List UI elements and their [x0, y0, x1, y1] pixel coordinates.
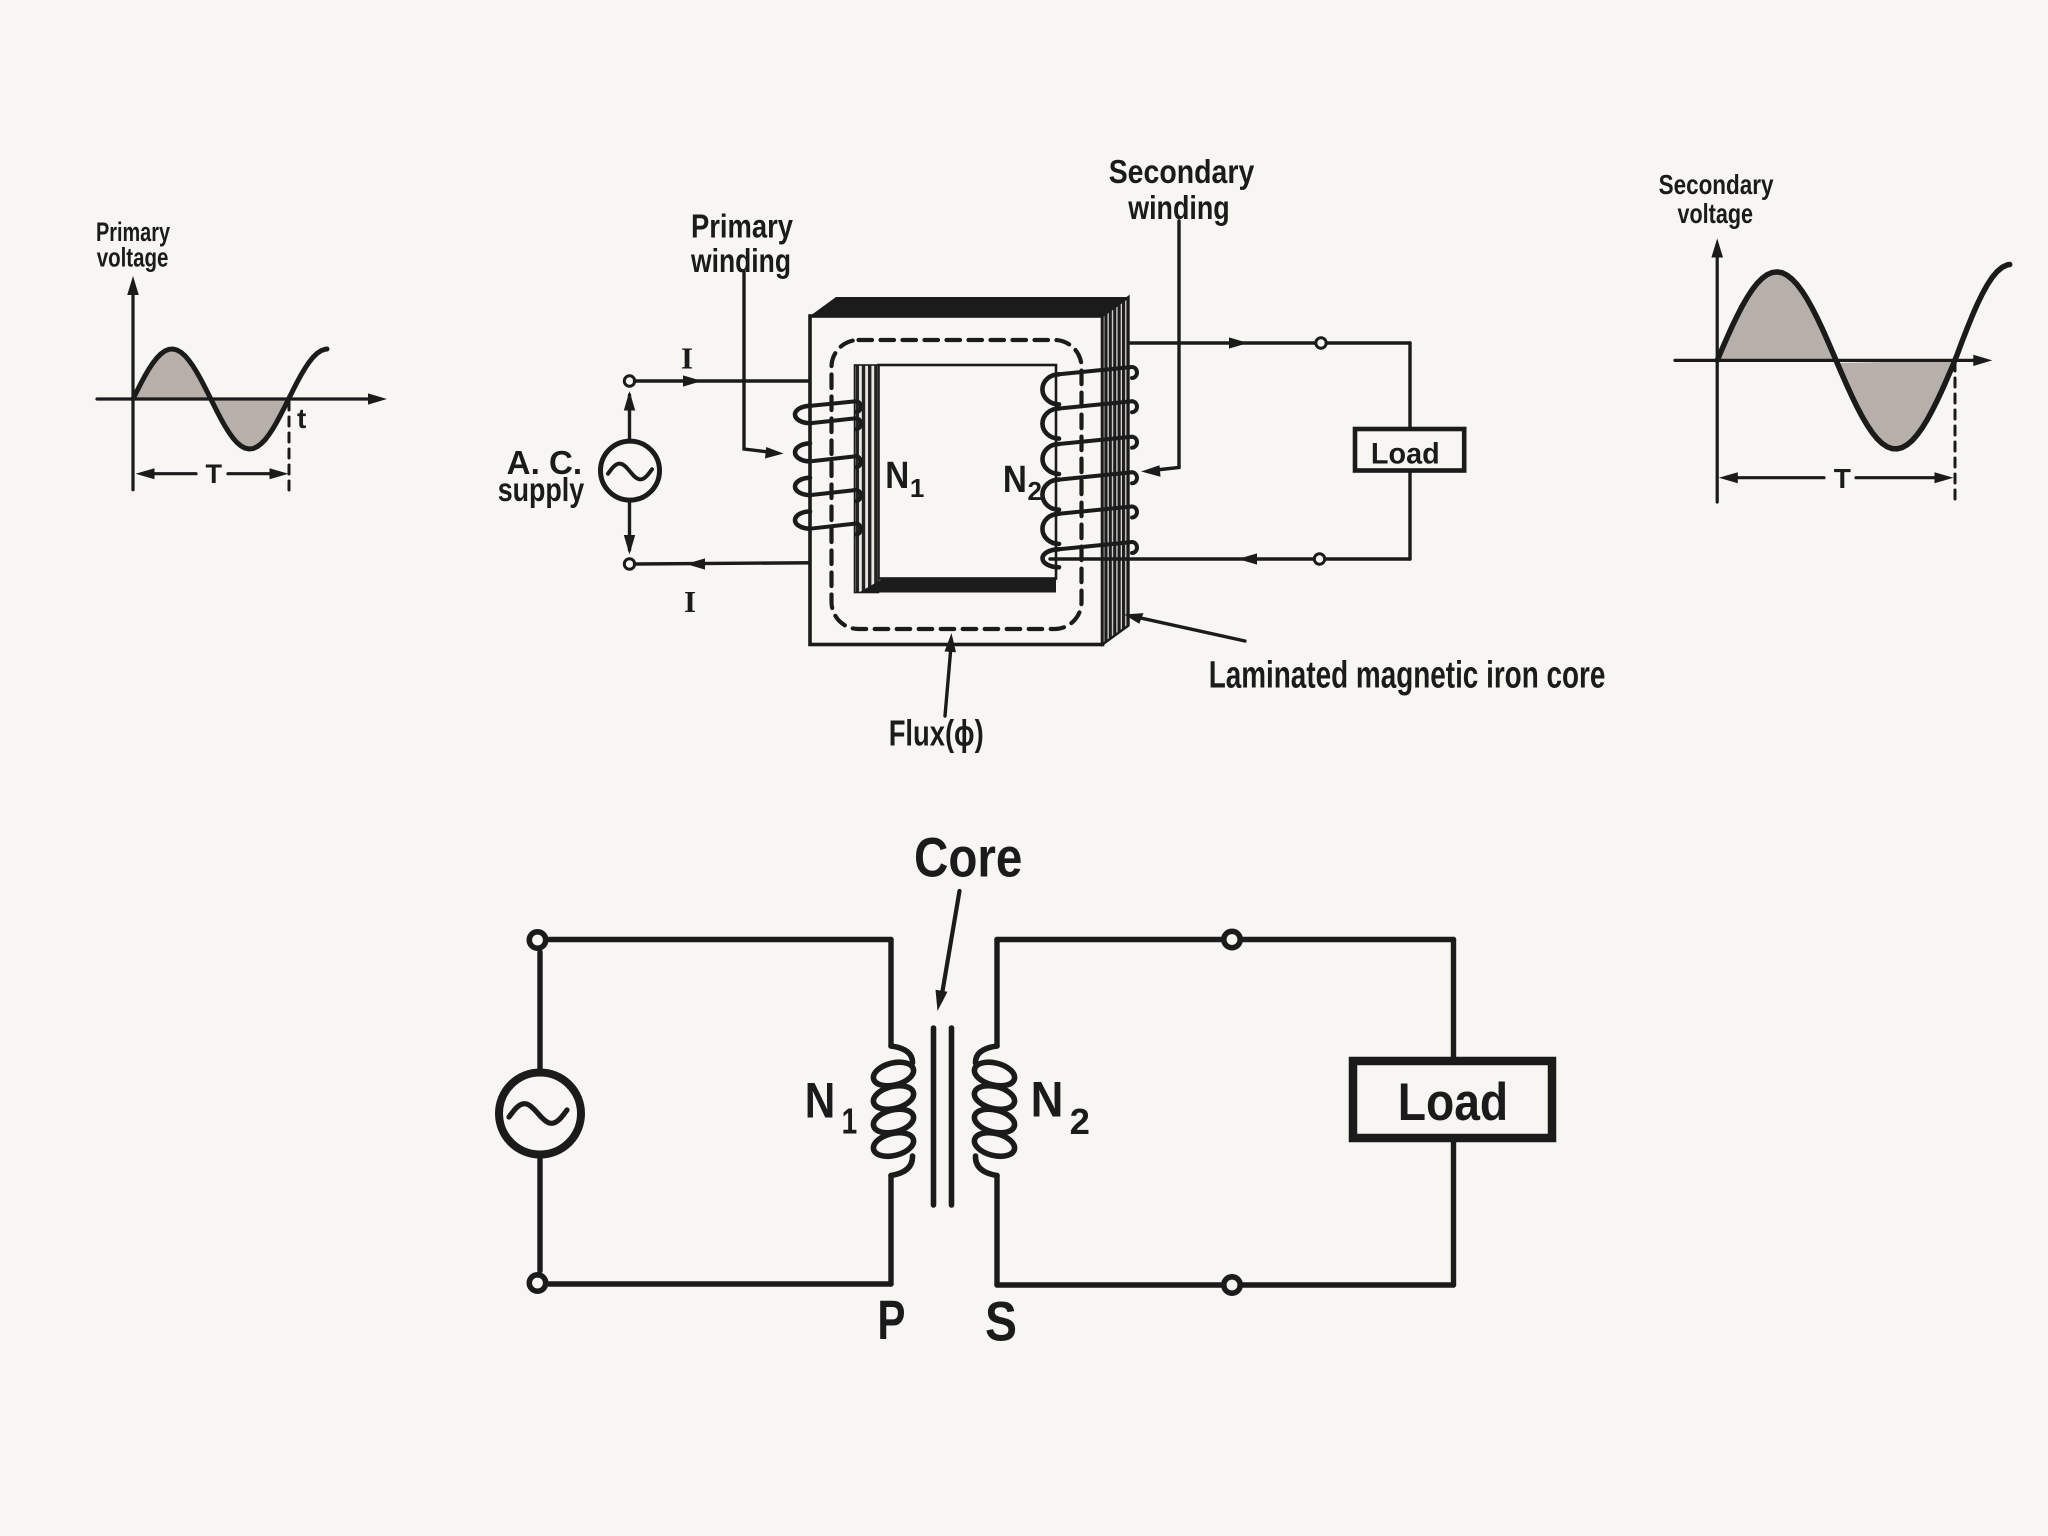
transformer core: top face (3D)	[810, 297, 1129, 316]
svg-text:T: T	[206, 459, 223, 489]
arrow from source down to bottom terminal	[624, 501, 635, 555]
leader arrow: primary winding label to coil	[744, 271, 784, 459]
AC supply source symbol	[601, 441, 660, 500]
secondary winding coil: turn arcs	[1042, 374, 1059, 567]
sine curve (primary voltage)	[133, 349, 327, 449]
leader arrow: secondary winding label to coil	[1141, 221, 1179, 477]
svg-text:t: t	[297, 403, 306, 434]
secondary winding coil: wires crossing laminated limb	[1059, 367, 1132, 549]
label: Secondary voltage	[1659, 169, 1774, 229]
svg-text:Load: Load	[1371, 437, 1440, 470]
shaded negative half-cycle (secondary)	[1837, 360, 1955, 448]
shaded positive half-cycle (primary)	[133, 349, 211, 399]
svg-text:Secondary: Secondary	[1659, 169, 1774, 200]
primary winding coil: turn arcs	[795, 406, 810, 529]
label: Flux(phi) with leader arrow	[889, 633, 984, 754]
secondary terminal on top rail	[1224, 931, 1240, 947]
svg-text:1: 1	[842, 1100, 858, 1141]
label: N1 (primary turns)	[885, 455, 924, 503]
svg-text:I: I	[681, 341, 693, 376]
svg-text:N: N	[885, 455, 909, 497]
secondary terminal (bottom)	[1314, 554, 1324, 564]
shaded negative half-cycle (primary)	[211, 398, 289, 449]
wire: primary coil down to bottom rail	[888, 1176, 893, 1285]
arrow from source up to top terminal	[624, 391, 635, 440]
svg-text:supply: supply	[498, 471, 585, 508]
svg-text:winding: winding	[690, 242, 791, 279]
dashed ordinate at time t (primary)	[288, 401, 291, 492]
wire: secondary coil bottom to bottom rail	[994, 1176, 999, 1286]
core window: laminated left limb edge	[855, 365, 879, 593]
svg-text:I: I	[684, 584, 696, 619]
wire: source to top rail	[537, 952, 542, 1073]
core window: bottom solid bar	[859, 579, 1056, 593]
svg-text:P: P	[877, 1288, 905, 1351]
transformer core: front face	[810, 316, 1103, 645]
vertical axis (primary voltage)	[131, 290, 134, 490]
source terminal (top left)	[529, 932, 545, 948]
label: Primary winding	[690, 208, 793, 280]
transformer core line (left)	[931, 1028, 937, 1205]
svg-text:Load: Load	[1398, 1073, 1509, 1132]
wire: secondary top rail	[997, 937, 1454, 942]
horizontal axis (time, secondary)	[1675, 359, 1979, 362]
horizontal axis (time, primary)	[97, 397, 374, 400]
svg-text:N: N	[805, 1073, 836, 1129]
label: Secondary winding	[1109, 153, 1255, 226]
transformer core line (right)	[949, 1028, 955, 1205]
wire: right side down to load	[1451, 940, 1456, 1063]
secondary coil N2 (bottom schematic)	[972, 1046, 1017, 1176]
label: Primary voltage	[96, 217, 170, 273]
label: Laminated magnetic iron core with leader arrow	[1124, 613, 1605, 696]
AC source symbol (bottom schematic)	[499, 1073, 581, 1155]
dashed ordinate at period end (secondary)	[1954, 362, 1957, 500]
primary winding coil: wrap knobs at window edge	[856, 401, 861, 534]
wire: down to load box top	[1408, 343, 1411, 429]
secondary terminal on bottom rail	[1224, 1277, 1240, 1293]
transformer core: laminated right side face	[1103, 297, 1129, 645]
svg-text:voltage: voltage	[1678, 198, 1754, 229]
svg-text:2: 2	[1070, 1101, 1090, 1142]
svg-text:Core: Core	[914, 825, 1022, 888]
wire: primary coil bottom back to bottom terminal with current arrow	[635, 558, 852, 569]
source terminal (bottom left)	[529, 1275, 545, 1291]
sine curve (secondary voltage)	[1717, 265, 2010, 449]
svg-text:T: T	[1834, 463, 1851, 494]
wire: secondary bottom rail	[997, 1282, 1454, 1287]
wire: primary bottom rail	[549, 1281, 891, 1286]
svg-text:N: N	[1003, 459, 1027, 501]
label: N1 (bottom schematic)	[805, 1073, 857, 1142]
secondary winding coil: return bumps on back edge	[1132, 367, 1137, 553]
wire: secondary coil top to top rail	[994, 940, 999, 1047]
label: N2 (bottom schematic)	[1031, 1071, 1090, 1142]
dimension line T (secondary period)	[1719, 463, 1954, 494]
svg-text:Flux(ϕ): Flux(ϕ)	[889, 713, 984, 754]
svg-text:S: S	[985, 1289, 1017, 1352]
svg-text:Laminated magnetic iron core: Laminated magnetic iron core	[1209, 654, 1606, 696]
AC supply terminal (top)	[624, 376, 634, 386]
dimension line T (primary period)	[136, 459, 289, 489]
wire: secondary coil top to load (horizontal) with current arrow	[1129, 337, 1411, 348]
core window opening	[879, 365, 1057, 579]
flux path (dashed)	[832, 340, 1082, 629]
wire: load box bottom down	[1408, 471, 1411, 560]
svg-text:voltage: voltage	[97, 243, 169, 273]
svg-text:Secondary: Secondary	[1109, 153, 1255, 190]
svg-text:Primary: Primary	[691, 208, 794, 245]
primary winding coil: wires crossing the limb	[810, 401, 856, 529]
label: N2 (secondary turns)	[1003, 459, 1042, 506]
load box (bottom schematic)	[1353, 1061, 1552, 1138]
wire: return to secondary coil (horizontal) with current arrow	[1050, 553, 1410, 564]
wire: top terminal to primary coil with current arrow	[635, 375, 811, 386]
label: A. C. supply	[498, 444, 585, 508]
AC supply terminal (bottom)	[624, 559, 634, 569]
wire: source to bottom rail	[537, 1154, 542, 1271]
secondary terminal (top)	[1316, 338, 1326, 348]
vertical axis (secondary voltage)	[1716, 252, 1719, 502]
wire: primary side down to coil	[888, 940, 893, 1047]
svg-text:N: N	[1031, 1071, 1064, 1127]
svg-text:1: 1	[910, 473, 924, 503]
load box (middle diagram)	[1355, 429, 1464, 471]
wire: load bottom to bottom rail	[1451, 1138, 1456, 1285]
shaded positive half-cycle (secondary)	[1717, 272, 1836, 361]
primary coil N1 (bottom schematic)	[871, 1046, 916, 1176]
wire: primary top rail	[549, 937, 891, 942]
svg-text:2: 2	[1028, 476, 1042, 506]
label: Core with leader arrow	[914, 825, 1022, 1011]
